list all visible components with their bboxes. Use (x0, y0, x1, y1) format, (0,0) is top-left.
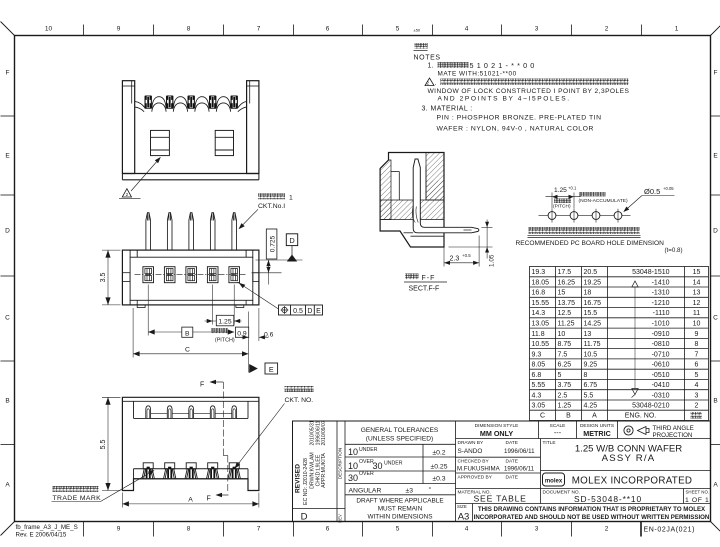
svg-text:1: 1 (675, 26, 679, 33)
svg-text:D: D (289, 236, 294, 245)
svg-text:A: A (713, 482, 718, 489)
svg-text:-1210: -1210 (652, 300, 670, 307)
svg-text:E: E (269, 365, 274, 374)
svg-text:±0.3: ±0.3 (432, 476, 445, 483)
svg-text:4.25: 4.25 (584, 403, 598, 410)
svg-text:4: 4 (695, 382, 699, 389)
svg-text:1.05: 1.05 (488, 254, 495, 267)
svg-text:C: C (5, 315, 10, 322)
svg-text:.: . (435, 80, 437, 87)
svg-text:B: B (713, 398, 717, 405)
svg-text:11.75: 11.75 (584, 341, 601, 348)
dim 1.25 +0.1 pitch (551, 193, 553, 209)
svg-text:D: D (713, 228, 718, 235)
svg-text:5: 5 (396, 26, 400, 33)
svg-text:9: 9 (695, 331, 699, 338)
svg-text:(t=0.8): (t=0.8) (665, 247, 683, 254)
svg-text:20.5: 20.5 (584, 269, 598, 276)
svg-text:1.: 1. (428, 63, 434, 70)
datum E (249, 364, 258, 373)
svg-text:A: A (592, 413, 597, 420)
svg-text:16.75: 16.75 (584, 300, 602, 307)
view 1: five dark contact pins (145, 96, 238, 109)
svg-text:A: A (5, 482, 10, 489)
svg-text:SEE TABLE: SEE TABLE (474, 494, 527, 504)
svg-text:3. MATERIAL :: 3. MATERIAL : (422, 106, 473, 113)
svg-text:PROJECTION: PROJECTION (653, 432, 693, 439)
svg-text:16.8: 16.8 (532, 290, 546, 297)
label CKT. NO. (bottom) (285, 386, 314, 392)
svg-text:8.05: 8.05 (532, 362, 546, 369)
title block right grid (456, 421, 711, 522)
view 3: body outline (122, 397, 259, 490)
svg-text:molex: molex (545, 478, 563, 484)
svg-text:DATE: DATE (506, 440, 518, 446)
svg-text:-0310: -0310 (652, 392, 670, 399)
svg-text:2: 2 (695, 403, 699, 410)
zone ticks top (84, 25, 642, 36)
svg-text:CHECKED BY: CHECKED BY (458, 459, 490, 465)
svg-text:19.25: 19.25 (584, 279, 602, 286)
label CKT.No.1 (top) (258, 193, 285, 199)
svg-text:SHEET NO.: SHEET NO. (686, 490, 710, 495)
view 3: section line F-F (222, 382, 224, 456)
svg-text:12: 12 (693, 300, 701, 307)
svg-text:15.55: 15.55 (532, 300, 550, 307)
svg-text:14: 14 (693, 279, 701, 286)
zone numbers bottom (117, 526, 609, 533)
svg-text:53048-1510: 53048-1510 (632, 269, 669, 276)
svg-text:E: E (5, 153, 10, 160)
svg-text:Ø0.5: Ø0.5 (644, 187, 660, 196)
svg-text:ENG. NO.: ENG. NO. (625, 413, 657, 420)
svg-text:8: 8 (187, 526, 191, 533)
dim 0.9 (248, 312, 250, 373)
svg-text:±50: ±50 (414, 28, 421, 33)
pcb holes: four circles (548, 209, 622, 223)
svg-text:10.5: 10.5 (584, 351, 598, 358)
table revision marks (634, 288, 636, 389)
svg-text:10: 10 (693, 321, 701, 328)
dim 1.05 (482, 226, 493, 228)
svg-text:INCORPORATED AND SHOULD NOT BE: INCORPORATED AND SHOULD NOT BE USED WITH… (474, 514, 710, 521)
svg-text:-0510: -0510 (652, 372, 670, 379)
dim 0.6 (258, 308, 260, 341)
svg-text:EC NO: J2010-2428: EC NO: J2010-2428 (303, 458, 309, 505)
svg-text:7.5: 7.5 (558, 351, 568, 358)
svg-text:SECT.F-F: SECT.F-F (409, 286, 440, 293)
svg-text:THIS DRAWING CONTAINS INFORMAT: THIS DRAWING CONTAINS INFORMATION THAT I… (478, 506, 706, 513)
general tolerances block (345, 421, 456, 522)
svg-text:-0610: -0610 (652, 362, 670, 369)
svg-text:11.25: 11.25 (558, 321, 575, 328)
svg-text:M.FUKUSHIMA: M.FUKUSHIMA (457, 466, 501, 473)
svg-text:GENERAL TOLERANCES: GENERAL TOLERANCES (361, 427, 439, 434)
svg-text:19.3: 19.3 (532, 269, 546, 276)
svg-text:-0410: -0410 (652, 382, 670, 389)
svg-text:F-F: F-F (422, 275, 436, 282)
molex logo (543, 473, 565, 486)
svg-text:C: C (185, 347, 190, 354)
svg-text:+0.05: +0.05 (663, 186, 674, 191)
svg-text:13.75: 13.75 (558, 300, 576, 307)
svg-text:DRAFT WHERE APPLICABLE: DRAFT WHERE APPLICABLE (356, 498, 443, 505)
view 2: center dash-dot line (135, 274, 248, 276)
svg-text:2: 2 (605, 26, 609, 33)
svg-text:UNDER: UNDER (359, 447, 378, 453)
svg-text:-0710: -0710 (652, 351, 670, 358)
svg-text:RECOMMENDED PC BOARD HOLE: RECOMMENDED PC BOARD HOLE DIMENSION (516, 240, 665, 247)
svg-text:10: 10 (45, 26, 53, 33)
svg-text:REVISED: REVISED (294, 464, 301, 493)
zone letters left/right (5, 70, 718, 489)
svg-text:SD-53048-**10: SD-53048-**10 (574, 494, 642, 504)
dim 5.5 left (102, 396, 121, 398)
svg-text:5: 5 (695, 372, 699, 379)
dimension table data (532, 269, 701, 409)
svg-text:A: A (188, 497, 193, 504)
svg-text:D: D (307, 308, 312, 315)
svg-text:2.5: 2.5 (558, 392, 568, 399)
svg-text:3.75: 3.75 (558, 382, 572, 389)
svg-text:2: 2 (427, 81, 430, 86)
svg-text:1996/06/11: 1996/06/11 (504, 466, 535, 473)
svg-text:9.3: 9.3 (532, 351, 542, 358)
svg-text:8: 8 (187, 26, 191, 33)
svg-text:D: D (5, 228, 10, 235)
svg-text:5: 5 (396, 526, 400, 533)
svg-text:DATE: DATE (506, 475, 518, 481)
section F-F: hatched body (380, 153, 444, 248)
svg-text:2.3: 2.3 (450, 256, 460, 263)
svg-text:18.05: 18.05 (532, 279, 550, 286)
svg-text:2010/09/07: 2010/09/07 (321, 420, 327, 445)
svg-text:9.25: 9.25 (584, 362, 598, 369)
svg-text:10: 10 (348, 461, 358, 471)
svg-text:S-ANDO: S-ANDO (458, 448, 483, 455)
svg-text:-1410: -1410 (652, 279, 670, 286)
view 2: body outline (122, 250, 259, 307)
svg-text:TITLE: TITLE (543, 440, 556, 446)
svg-text:5.5: 5.5 (100, 440, 107, 450)
svg-text:1996/06/11: 1996/06/11 (504, 448, 535, 455)
dim 1.25 pitch (212, 285, 214, 325)
dim 0.725 boxed right (266, 229, 277, 259)
svg-text:MM ONLY: MM ONLY (480, 429, 513, 438)
svg-text:15: 15 (558, 290, 566, 297)
view 2: five contact boxes (143, 267, 240, 283)
svg-text:7: 7 (257, 26, 261, 33)
svg-text:10.55: 10.55 (532, 341, 550, 348)
svg-text:18: 18 (584, 290, 592, 297)
svg-text:NOTES: NOTES (414, 55, 441, 62)
svg-text:8: 8 (584, 372, 588, 379)
label trade mark (53, 486, 99, 492)
svg-text:SIZE: SIZE (457, 504, 467, 509)
svg-text:F: F (200, 382, 204, 389)
svg-text:30: 30 (348, 473, 358, 483)
svg-text:UNDER: UNDER (384, 461, 403, 467)
svg-text:9: 9 (117, 26, 121, 33)
svg-text:11.8: 11.8 (532, 331, 545, 338)
svg-text:-1110: -1110 (653, 310, 670, 317)
svg-text:B: B (5, 398, 9, 405)
svg-text:4: 4 (465, 526, 469, 533)
svg-text:(NON-ACCUMULATE): (NON-ACCUMULATE) (579, 198, 628, 204)
svg-text:-0910: -0910 (652, 331, 670, 338)
svg-text:F: F (714, 70, 718, 77)
svg-text:6.25: 6.25 (558, 362, 572, 369)
svg-text:7: 7 (257, 526, 261, 533)
svg-text:EN-02JA(021): EN-02JA(021) (644, 527, 696, 534)
svg-text:MUST REMAIN: MUST REMAIN (378, 506, 423, 513)
svg-text:THIRD ANGLE: THIRD ANGLE (653, 425, 694, 432)
svg-text:0.5: 0.5 (293, 308, 303, 315)
svg-text:ASSY R/A: ASSY R/A (602, 453, 656, 464)
svg-text:(UNLESS SPECIFIED): (UNLESS SPECIFIED) (366, 436, 433, 443)
svg-text:CKT.No.I: CKT.No.I (258, 203, 285, 210)
revision column (293, 421, 346, 522)
svg-text:2: 2 (126, 192, 129, 197)
svg-text:14.25: 14.25 (584, 321, 602, 328)
dim B (147, 285, 149, 336)
section F-F: cavity lines (391, 171, 399, 173)
pcb caption kanji (529, 227, 640, 234)
svg-text:WITHIN DIMENSIONS: WITHIN DIMENSIONS (368, 514, 433, 521)
svg-text:±0.2: ±0.2 (432, 450, 445, 457)
svg-text:Rev. E 2006/04/15: Rev. E 2006/04/15 (16, 531, 67, 538)
dim 2.3 +0.5 (443, 241, 445, 267)
notes heading (kanji) (415, 43, 428, 49)
view 2: five pins (146, 213, 237, 250)
svg-text:8.75: 8.75 (558, 341, 572, 348)
svg-text:METRIC: METRIC (583, 429, 611, 438)
zone numbers top (45, 26, 679, 33)
svg-text:REV: REV (337, 514, 342, 523)
svg-text:MOLEX INCORPORATED: MOLEX INCORPORATED (572, 476, 693, 487)
third angle projection cell (624, 426, 633, 435)
svg-text:6.75: 6.75 (584, 382, 598, 389)
svg-text:3: 3 (535, 526, 539, 533)
svg-text:30: 30 (373, 461, 383, 471)
svg-text:F: F (6, 70, 10, 77)
svg-text:C: C (713, 315, 718, 322)
svg-text:DRAWN BY: DRAWN BY (458, 440, 484, 446)
svg-text:-1010: -1010 (652, 321, 670, 328)
svg-text:±0.25: ±0.25 (431, 463, 448, 470)
svg-text:7: 7 (695, 351, 699, 358)
svg-text:-0810: -0810 (652, 341, 670, 348)
svg-text:12.5: 12.5 (558, 310, 572, 317)
dim 3.5 left (102, 249, 121, 251)
svg-text:PIN : PHOSPHOR BRONZE. PRE-PLA: PIN : PHOSPHOR BRONZE. PRE-PLATED TIN (437, 115, 602, 122)
dim C (132, 308, 134, 358)
svg-text:13: 13 (584, 331, 592, 338)
svg-text:(PITCH): (PITCH) (553, 204, 571, 210)
svg-text:13.05: 13.05 (532, 321, 550, 328)
svg-text:1: 1 (289, 195, 293, 202)
view 1: wavy cover (double arcs) (135, 97, 247, 108)
svg-text:B: B (566, 413, 571, 420)
revision triangle 2 (122, 189, 131, 197)
svg-text:11: 11 (693, 310, 700, 317)
svg-text:A3: A3 (458, 512, 470, 523)
svg-text:5: 5 (558, 372, 562, 379)
leader to revision triangle 2 (131, 159, 159, 191)
svg-text:6: 6 (326, 26, 330, 33)
svg-text:10: 10 (558, 331, 566, 338)
svg-text:5.5: 5.5 (584, 392, 594, 399)
svg-text:4: 4 (465, 26, 469, 33)
svg-text:-1310: -1310 (652, 290, 670, 297)
svg-text:D: D (301, 512, 308, 523)
title block outer (293, 421, 711, 522)
svg-text:16.25: 16.25 (558, 279, 576, 286)
section F-F: bent pin (413, 159, 479, 233)
svg-text:1.25: 1.25 (558, 403, 572, 410)
svg-text:53048-0210: 53048-0210 (632, 403, 669, 410)
svg-text:°: ° (429, 486, 432, 494)
svg-text:0.725: 0.725 (270, 235, 277, 252)
svg-text:14.3: 14.3 (532, 310, 546, 317)
svg-text:E: E (713, 153, 718, 160)
view 3: five bullet pin tips (146, 406, 237, 419)
svg-text:±3: ±3 (406, 487, 414, 494)
svg-text:ANGULAR: ANGULAR (349, 487, 382, 494)
svg-text:AND 2POINTS BY 4~I5POLES.: AND 2POINTS BY 4~I5POLES. (438, 96, 571, 103)
svg-text:4.3: 4.3 (532, 392, 542, 399)
label SECT.F-F (405, 274, 419, 280)
svg-text:fb_frame_A3_J_ME_S: fb_frame_A3_J_ME_S (16, 524, 78, 531)
svg-text:C: C (540, 413, 545, 420)
svg-text:---: --- (554, 428, 562, 437)
zone ticks bottom (84, 522, 642, 537)
svg-text:10: 10 (348, 447, 358, 457)
svg-text:MATE WITH:51021-**00: MATE WITH:51021-**00 (438, 71, 517, 78)
view 1: lock window left (151, 130, 170, 155)
svg-text:F: F (207, 496, 211, 503)
svg-text:E: E (316, 308, 321, 315)
pcb holes: center line (539, 215, 631, 217)
svg-text:15: 15 (693, 269, 701, 276)
svg-text:1.25: 1.25 (554, 187, 567, 194)
svg-text:9: 9 (117, 526, 121, 533)
svg-text:3.5: 3.5 (100, 273, 107, 283)
view 1: lock window right (215, 130, 233, 155)
table header row (540, 413, 656, 420)
svg-text:2: 2 (605, 526, 609, 533)
svg-text:17.5: 17.5 (558, 269, 572, 276)
dim A bottom (121, 493, 123, 508)
svg-text:1 OF 1: 1 OF 1 (685, 497, 709, 504)
svg-text:6.8: 6.8 (532, 372, 542, 379)
dimension table grid (530, 267, 709, 421)
svg-text:0.6: 0.6 (264, 331, 274, 338)
view 3: five bottom contacts (142, 463, 240, 479)
svg-text:15.5: 15.5 (584, 310, 598, 317)
svg-text:OVER: OVER (359, 471, 374, 477)
svg-text:8: 8 (695, 341, 699, 348)
svg-text:6: 6 (326, 526, 330, 533)
svg-text:6: 6 (695, 362, 699, 369)
corner trim marks (1, 22, 15, 36)
bottom right code (640, 522, 642, 537)
svg-text:51021-**00: 51021-**00 (470, 61, 538, 70)
svg-text:DATE: DATE (506, 459, 518, 465)
svg-text:B: B (185, 330, 190, 337)
position tolerance frame 0.5 D E (238, 282, 279, 309)
svg-text:(PITCH): (PITCH) (215, 338, 235, 344)
datum D (286, 234, 297, 246)
svg-text:13: 13 (693, 290, 701, 297)
svg-text:1.25: 1.25 (218, 319, 231, 326)
svg-text:+0.1: +0.1 (568, 185, 577, 190)
svg-text:TRADE MARK: TRADE MARK (53, 495, 102, 502)
svg-text:3: 3 (695, 392, 699, 399)
note 2 revision triangle (425, 78, 434, 86)
svg-text:APPROVED BY: APPROVED BY (458, 475, 493, 481)
section F-F: standoff lines (411, 235, 445, 237)
view 1: connector rear view body outline (122, 81, 259, 180)
svg-text:+0.5: +0.5 (462, 253, 471, 258)
svg-text:3.05: 3.05 (532, 403, 546, 410)
svg-text:APPR:MUKITA: APPR:MUKITA (321, 453, 327, 488)
svg-text:DESCRIPTION: DESCRIPTION (337, 448, 342, 479)
svg-text:5.55: 5.55 (532, 382, 546, 389)
svg-text:CKT. NO.: CKT. NO. (285, 397, 314, 404)
svg-text:3: 3 (535, 26, 539, 33)
svg-text:WINDOW OF LOCK CONSTRUCTED I: WINDOW OF LOCK CONSTRUCTED I POINT BY 2,… (428, 88, 630, 95)
svg-text:WAFER : NYLON, 94V-0 , NATURAL: WAFER : NYLON, 94V-0 , NATURAL COLOR (437, 126, 594, 133)
